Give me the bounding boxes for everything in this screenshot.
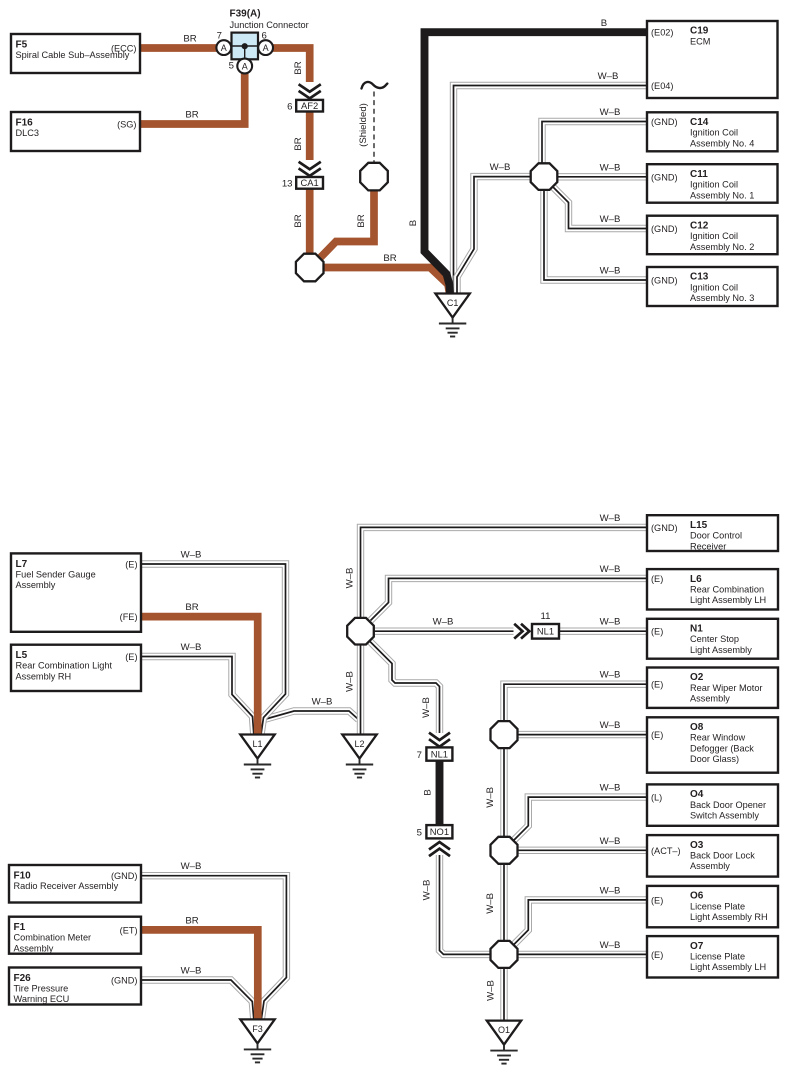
node J4 splice — [491, 837, 518, 864]
svg-text:W–B: W–B — [181, 966, 202, 977]
chevron arrows into AF2 — [299, 84, 321, 98]
node J2 splice — [347, 618, 374, 645]
component box F10 Radio Receiver Assembly — [9, 865, 141, 903]
connector NL1 pin 11 — [532, 611, 559, 638]
wire W-B O8 (E) to node J3 — [518, 734, 648, 736]
wire BR F1 (ET) to ground F3 — [141, 930, 258, 1020]
svg-text:(E): (E) — [651, 895, 663, 905]
wire W-B ground link L1 to L2 — [264, 711, 359, 720]
svg-text:Door Glass): Door Glass) — [690, 754, 739, 764]
svg-text:W–B: W–B — [600, 162, 621, 173]
component box O3 Back Door Lock Assembly — [647, 835, 778, 877]
svg-text:C13: C13 — [690, 272, 709, 283]
wire W-B node J5 to ground O1 — [503, 968, 505, 1021]
component box O2 Rear Wiper Motor Assembly — [647, 668, 778, 708]
svg-text:Ignition Coil: Ignition Coil — [690, 128, 738, 138]
svg-text:Light Assembly LH: Light Assembly LH — [690, 962, 766, 972]
svg-text:O4: O4 — [690, 789, 704, 800]
svg-text:Warning ECU: Warning ECU — [14, 994, 70, 1004]
svg-text:BR: BR — [185, 915, 198, 926]
svg-text:6: 6 — [287, 101, 292, 112]
svg-text:O1: O1 — [498, 1025, 510, 1035]
chevron arrows into CA1 — [299, 162, 321, 176]
svg-text:Switch Assembly: Switch Assembly — [690, 811, 759, 821]
svg-text:W–B: W–B — [600, 513, 621, 524]
svg-text:L5: L5 — [16, 650, 28, 661]
wire BR connector CA1 to node J1 — [306, 189, 314, 254]
svg-text:F39(A): F39(A) — [230, 9, 261, 20]
svg-text:License Plate: License Plate — [690, 952, 745, 962]
wire W-B node J3 to node J4 — [503, 748, 505, 837]
svg-text:L1: L1 — [252, 739, 262, 749]
svg-text:O8: O8 — [690, 722, 704, 733]
svg-text:Back Door Lock: Back Door Lock — [690, 851, 755, 861]
ground L2 — [342, 735, 376, 778]
svg-text:Fuel Sender Gauge: Fuel Sender Gauge — [16, 569, 96, 579]
svg-text:NL1: NL1 — [537, 626, 554, 637]
svg-text:W–B: W–B — [600, 670, 621, 681]
svg-text:License Plate: License Plate — [690, 901, 745, 911]
wire W-B O3 (ACT-) to node J4 — [518, 849, 648, 851]
svg-text:Assembly: Assembly — [14, 943, 54, 953]
wire BR F16 (SG) to junction connector pin 5 — [140, 74, 245, 125]
svg-text:BR: BR — [356, 214, 367, 227]
svg-text:W–B: W–B — [181, 861, 202, 872]
wire B ECM (E02) to ground C1 — [425, 32, 648, 293]
svg-text:O6: O6 — [690, 891, 704, 902]
wire W-B node J4 to node J5 — [503, 864, 505, 941]
svg-text:(E): (E) — [651, 680, 663, 690]
component box F16 DLC3 — [11, 112, 140, 151]
svg-text:W–B: W–B — [312, 697, 333, 708]
connector NO1 pin 5 — [417, 825, 453, 838]
svg-text:A: A — [221, 43, 227, 53]
svg-text:(E): (E) — [125, 652, 137, 662]
wire W-B node J2 to L6 (E) — [371, 578, 648, 620]
svg-text:(E): (E) — [651, 627, 663, 637]
svg-text:(ET): (ET) — [120, 925, 138, 935]
svg-text:BR: BR — [383, 253, 396, 264]
svg-text:O7: O7 — [690, 941, 704, 952]
svg-text:(GND): (GND) — [651, 224, 678, 234]
svg-text:W–B: W–B — [485, 787, 496, 808]
component box F1 Combination Meter Assembly — [9, 917, 141, 954]
wire W-B ignition-coil common from node J6 to ground C1 — [457, 177, 531, 293]
ground C1 — [435, 294, 469, 337]
component box O6 License Plate Light Assembly RH — [647, 886, 778, 927]
svg-text:Receiver: Receiver — [690, 541, 726, 551]
component box L7 Fuel Sender Gauge Assembly — [11, 553, 141, 631]
svg-text:Defogger (Back: Defogger (Back — [690, 743, 754, 753]
svg-text:C14: C14 — [690, 117, 709, 128]
svg-text:(GND): (GND) — [651, 276, 678, 286]
svg-text:Rear Combination: Rear Combination — [690, 585, 764, 595]
svg-text:W–B: W–B — [600, 266, 621, 277]
svg-text:Light Assembly: Light Assembly — [690, 645, 752, 655]
svg-text:A: A — [242, 61, 248, 71]
wire B connector NL1-7 to connector NO1 — [436, 761, 444, 826]
wire W-B node J6 to C12 (GND) — [553, 187, 648, 229]
svg-text:F1: F1 — [14, 922, 26, 933]
svg-text:W–B: W–B — [485, 893, 496, 914]
svg-text:(GND): (GND) — [651, 172, 678, 182]
svg-text:W–B: W–B — [600, 107, 621, 118]
svg-text:C1: C1 — [447, 298, 459, 308]
wire W-B L5 (E) to ground L1 — [141, 657, 254, 735]
svg-text:W–B: W–B — [421, 697, 432, 718]
svg-text:Assembly: Assembly — [16, 580, 56, 590]
svg-text:(E): (E) — [651, 730, 663, 740]
wire W-B connector NO1 to node J5 — [440, 855, 491, 954]
svg-text:W–B: W–B — [600, 617, 621, 628]
svg-text:Assembly: Assembly — [690, 861, 730, 871]
svg-text:Assembly: Assembly — [690, 694, 730, 704]
wire BR node J1 to ground C1 — [323, 268, 450, 294]
svg-text:BR: BR — [293, 137, 304, 150]
junction connector F39(A) — [216, 9, 308, 74]
svg-text:L6: L6 — [690, 574, 702, 585]
wire W-B O6 (E) to node J5 — [513, 900, 647, 945]
wire W-B node J6 to C14 (GND) — [542, 122, 647, 164]
wire W-B node J2 to L15 (GND) — [361, 527, 648, 618]
component box O7 License Plate Light Assembly LH — [647, 936, 778, 977]
wire W-B L7 (E) to ground L1 — [141, 564, 286, 735]
connector AF2 pin 6 — [287, 100, 323, 112]
svg-text:Assembly No. 2: Assembly No. 2 — [690, 242, 754, 252]
svg-text:BR: BR — [293, 214, 304, 227]
node J3 splice — [491, 721, 518, 748]
svg-text:Ignition Coil: Ignition Coil — [690, 180, 738, 190]
svg-text:(E): (E) — [651, 574, 663, 584]
node J5 splice — [491, 941, 518, 968]
svg-text:O3: O3 — [690, 840, 704, 851]
ground O1 — [487, 1021, 521, 1064]
svg-text:B: B — [408, 220, 419, 226]
svg-text:W–B: W–B — [600, 720, 621, 731]
component box O8 Rear Window Defogger — [647, 717, 778, 772]
wire W-B F10 (GND) to ground F3 — [141, 876, 286, 1020]
chevron arrows into NL1-7 — [429, 733, 450, 747]
component box C11 Ignition Coil Assembly No. 1 — [647, 164, 778, 203]
svg-text:W–B: W–B — [598, 71, 619, 82]
wire BR shielded node to node J1 — [319, 191, 375, 260]
svg-text:Assembly No. 1: Assembly No. 1 — [690, 190, 754, 200]
svg-text:W–B: W–B — [181, 550, 202, 561]
svg-text:F5: F5 — [16, 40, 28, 51]
svg-text:Assembly No. 3: Assembly No. 3 — [690, 293, 754, 303]
svg-text:N1: N1 — [690, 624, 703, 635]
svg-text:Light Assembly LH: Light Assembly LH — [690, 595, 766, 605]
wire BR L7 (FE) to ground L1 — [141, 617, 258, 735]
svg-text:L15: L15 — [690, 520, 708, 531]
svg-text:5: 5 — [417, 828, 422, 839]
svg-text:A: A — [263, 43, 269, 53]
ground L1 — [240, 735, 274, 778]
component box C12 Ignition Coil Assembly No. 2 — [647, 216, 778, 255]
svg-text:W–B: W–B — [345, 671, 356, 692]
svg-text:Tire Pressure: Tire Pressure — [14, 984, 69, 994]
component box F26 Tire Pressure Warning ECU — [9, 968, 141, 1005]
svg-text:(GND): (GND) — [111, 871, 138, 881]
svg-text:Rear Window: Rear Window — [690, 733, 746, 743]
svg-text:Junction Connector: Junction Connector — [230, 20, 309, 30]
svg-text:(ACT–): (ACT–) — [651, 846, 681, 856]
wire W-B O4 (L) to node J4 — [513, 797, 647, 841]
svg-text:DLC3: DLC3 — [16, 128, 40, 138]
svg-text:(L): (L) — [651, 793, 662, 803]
svg-text:BR: BR — [183, 34, 196, 45]
svg-text:Assembly No. 4: Assembly No. 4 — [690, 138, 754, 148]
svg-text:L7: L7 — [16, 559, 28, 570]
wire W-B ECM (E04) to ground C1 — [454, 86, 648, 294]
svg-text:W–B: W–B — [600, 783, 621, 794]
svg-text:(Shielded): (Shielded) — [358, 103, 369, 147]
svg-text:AF2: AF2 — [301, 100, 318, 111]
svg-text:W–B: W–B — [600, 214, 621, 225]
svg-text:W–B: W–B — [490, 162, 511, 173]
component box O4 Back Door Opener Switch Assembly — [647, 784, 778, 825]
wire W-B connector NL1-11 to N1 (E) — [559, 630, 647, 632]
ground F3 — [240, 1019, 274, 1062]
svg-text:B: B — [601, 18, 607, 29]
node J1 splice — [296, 254, 324, 282]
svg-text:NL1: NL1 — [431, 748, 448, 759]
svg-text:B: B — [423, 789, 434, 795]
svg-text:(E): (E) — [651, 950, 663, 960]
wire W-B node J2 to ground L2 — [360, 645, 362, 735]
svg-text:ECM: ECM — [690, 36, 710, 46]
wire BR connector AF2 to connector CA1 — [306, 112, 314, 161]
svg-text:C11: C11 — [690, 169, 708, 180]
component box C14 Ignition Coil Assembly No. 4 — [647, 112, 778, 151]
component box C19 ECM — [647, 21, 778, 98]
svg-text:F3: F3 — [252, 1024, 263, 1034]
svg-text:CA1: CA1 — [300, 177, 318, 188]
svg-text:W–B: W–B — [600, 836, 621, 847]
wire BR junction connector pin 6 to connector AF2 — [272, 48, 310, 82]
wire W-B node J2 to connector NL1-11 — [374, 630, 514, 632]
svg-text:Rear Combination Light: Rear Combination Light — [16, 661, 113, 671]
svg-text:(GND): (GND) — [651, 523, 678, 533]
wire W-B O7 (E) to node J5 — [518, 953, 648, 955]
chevron arrows into NL1-11 — [514, 624, 529, 639]
svg-text:(E04): (E04) — [651, 81, 673, 91]
wire W-B node J6 to C11 (GND) — [557, 176, 647, 178]
svg-text:W–B: W–B — [600, 940, 621, 951]
svg-text:Ignition Coil: Ignition Coil — [690, 282, 738, 292]
component box N1 Center Stop Light Assembly — [647, 619, 778, 659]
svg-text:W–B: W–B — [600, 885, 621, 896]
svg-text:Light Assembly RH: Light Assembly RH — [690, 912, 768, 922]
chevron arrows into NO1 — [429, 842, 450, 856]
svg-text:F16: F16 — [16, 118, 34, 129]
wire W-B node J6 to C13 (GND) — [544, 190, 647, 280]
component box L6 Rear Combination Light Assembly LH — [647, 569, 778, 609]
svg-text:C19: C19 — [690, 26, 709, 37]
svg-text:Ignition Coil: Ignition Coil — [690, 231, 738, 241]
component box C13 Ignition Coil Assembly No. 3 — [647, 267, 778, 306]
svg-text:Back Door Opener: Back Door Opener — [690, 800, 766, 810]
svg-text:W–B: W–B — [433, 617, 454, 628]
svg-text:BR: BR — [293, 61, 304, 74]
component box L5 Rear Combination Light Assembly RH — [11, 645, 141, 691]
svg-text:C12: C12 — [690, 220, 709, 231]
svg-text:(E02): (E02) — [651, 28, 673, 38]
node J6 splice — [531, 163, 558, 190]
svg-text:(E): (E) — [125, 560, 137, 570]
wire BR F5 (ECC) to junction connector pin 7 — [140, 44, 217, 52]
svg-text:(FE): (FE) — [120, 612, 138, 622]
svg-text:(GND): (GND) — [651, 117, 678, 127]
svg-text:(SG): (SG) — [117, 120, 136, 130]
svg-text:BR: BR — [185, 602, 198, 613]
wire W-B O2 (E) to node J3 — [504, 684, 647, 721]
svg-text:W–B: W–B — [600, 564, 621, 575]
svg-text:(GND): (GND) — [111, 976, 138, 986]
svg-text:W–B: W–B — [421, 880, 432, 901]
wire W-B node J2 to connector NL1-7 — [370, 642, 440, 734]
wire W-B F26 (GND) to ground F3 — [141, 980, 254, 1019]
shielded cable symbol — [362, 82, 388, 162]
component box F5 Spiral Cable Sub-Assembly — [11, 34, 140, 73]
svg-text:(ECC): (ECC) — [111, 44, 137, 54]
svg-text:Center Stop: Center Stop — [690, 634, 739, 644]
svg-text:W–B: W–B — [345, 568, 356, 589]
svg-text:Assembly RH: Assembly RH — [16, 671, 72, 681]
svg-text:W–B: W–B — [486, 980, 497, 1001]
svg-text:F10: F10 — [14, 871, 32, 882]
svg-text:Combination Meter: Combination Meter — [14, 933, 92, 943]
svg-text:L2: L2 — [354, 739, 364, 749]
svg-text:7: 7 — [417, 750, 422, 761]
svg-text:13: 13 — [282, 179, 293, 190]
connector CA1 pin 13 — [282, 177, 323, 190]
svg-text:Radio Receiver Assembly: Radio Receiver Assembly — [14, 881, 119, 891]
svg-text:O2: O2 — [690, 672, 704, 683]
svg-text:BR: BR — [185, 110, 198, 121]
svg-text:11: 11 — [541, 611, 551, 622]
svg-text:Door Control: Door Control — [690, 531, 742, 541]
svg-text:5: 5 — [229, 61, 234, 72]
svg-text:Rear Wiper Motor: Rear Wiper Motor — [690, 683, 763, 693]
svg-text:W–B: W–B — [181, 642, 202, 653]
node shielded splice — [360, 163, 388, 191]
svg-text:7: 7 — [217, 31, 222, 42]
component box L15 Door Control Receiver — [647, 515, 778, 551]
svg-text:NO1: NO1 — [430, 826, 449, 837]
svg-text:6: 6 — [262, 31, 267, 42]
svg-text:F26: F26 — [14, 973, 32, 984]
connector NL1 pin 7 — [417, 747, 453, 760]
